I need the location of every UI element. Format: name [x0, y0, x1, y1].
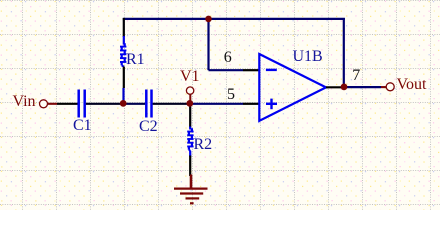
wire top feedback horizontal [123, 18, 345, 20]
label R2 [194, 136, 213, 154]
label C1 [73, 117, 92, 135]
wire R1 top lead [123, 18, 125, 45]
wire node A to C2 [124, 103, 146, 105]
junction node A [120, 100, 127, 107]
wire output to Vout [344, 86, 381, 88]
port Vin stub [48, 103, 58, 105]
port Vout stub [381, 86, 387, 88]
pin 5 lead [243, 103, 259, 105]
op-amp U1B [259, 54, 326, 121]
wire node V1 to pin5 [190, 103, 243, 105]
wire R2 top lead [189, 104, 191, 130]
label C2 [139, 118, 158, 136]
pin number 6 [224, 49, 232, 67]
port V1 stub [189, 94, 191, 102]
R1 bottom lead [122, 67, 125, 102]
label U1B [293, 48, 323, 66]
label Vin [13, 93, 36, 111]
wire feedback right vertical [343, 18, 345, 87]
R2 bottom lead [189, 151, 191, 176]
junction feedback top [205, 16, 212, 23]
pin number 5 [227, 86, 235, 104]
wire pin6 horizontal [209, 69, 244, 71]
ground [174, 175, 208, 204]
wire C2 to node V1 [153, 103, 190, 105]
wire Vin to C1 [57, 103, 78, 105]
pin 6 lead [243, 69, 259, 71]
pin 7 output lead [326, 86, 344, 88]
capacitor C1 [79, 90, 85, 118]
junction node V1 [186, 100, 193, 107]
capacitor C2 [146, 90, 151, 118]
terminal circle V1 [186, 87, 193, 94]
terminal circle Vin [40, 100, 48, 108]
label R1 [126, 51, 145, 69]
wire pin6 vertical drop [207, 18, 209, 70]
resistor R2 [187, 128, 193, 151]
junction output [341, 84, 348, 91]
pin number 7 [352, 67, 360, 85]
wire C1 to node A [86, 103, 123, 105]
label Vout [397, 76, 427, 94]
terminal circle Vout [386, 83, 394, 91]
label V1 [180, 68, 200, 86]
resistor R1 [120, 43, 126, 66]
